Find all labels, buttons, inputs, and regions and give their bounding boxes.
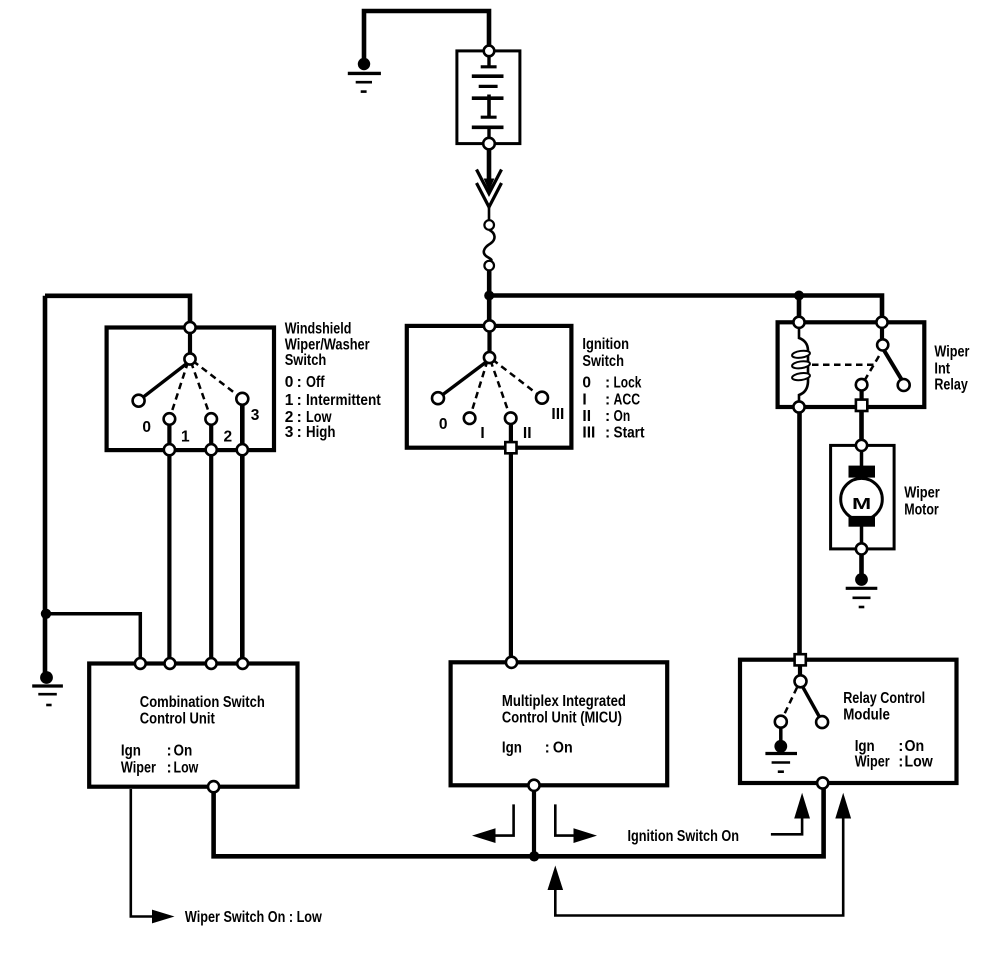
wiper/washer switch box xyxy=(107,328,274,451)
terminal bottom 3 xyxy=(237,444,248,455)
svg-text:Combination Switch: Combination Switch xyxy=(140,694,265,711)
svg-text:Control Unit (MICU): Control Unit (MICU) xyxy=(502,710,622,727)
wire ignition pivot stem xyxy=(487,326,491,358)
svg-text:Windshield: Windshield xyxy=(285,321,352,338)
wire module pivot stem xyxy=(798,660,802,682)
terminal bottom 2 xyxy=(206,444,217,455)
fusible link squiggle xyxy=(484,230,495,261)
svg-text::: : xyxy=(167,743,172,760)
svg-text:Low: Low xyxy=(174,759,200,776)
annotation signal into module left xyxy=(771,818,802,834)
relay coil loop 3 xyxy=(792,372,811,381)
svg-text:III: III xyxy=(582,424,595,441)
svg-text:High: High xyxy=(306,424,336,441)
svg-text::: : xyxy=(605,408,610,425)
battery terminal top xyxy=(484,46,495,57)
svg-text::: : xyxy=(605,391,610,408)
contact 0 xyxy=(133,395,145,407)
arrowhead feedback xyxy=(548,866,564,891)
svg-text::: : xyxy=(297,424,302,441)
contact 0 (Lock) xyxy=(432,392,444,404)
wire switch 1 to combination unit xyxy=(167,455,171,664)
svg-text::: : xyxy=(605,424,610,441)
wire wiper switch feed xyxy=(45,296,190,328)
terminal wiper switch top xyxy=(184,322,195,333)
contact 1 xyxy=(164,413,176,425)
svg-text:0: 0 xyxy=(285,374,294,391)
svg-text:3: 3 xyxy=(285,424,294,441)
svg-text:3: 3 xyxy=(251,407,260,424)
svg-text:On: On xyxy=(614,408,631,425)
annotation feedback line xyxy=(555,818,843,916)
switch arm to position 0 xyxy=(139,361,190,401)
svg-text:III: III xyxy=(551,406,564,423)
svg-text:1: 1 xyxy=(285,392,294,409)
relay NC contact xyxy=(856,379,868,391)
label MICU state xyxy=(502,740,573,757)
terminal comb 2 xyxy=(165,658,176,669)
in-line connector double chevron xyxy=(477,170,502,208)
svg-text::: : xyxy=(167,759,172,776)
dashed arm to position II xyxy=(491,361,511,419)
wire NC contact to terminal xyxy=(859,388,863,405)
svg-text:II: II xyxy=(582,408,591,425)
svg-text:1: 1 xyxy=(181,429,190,446)
annotation signal out of MICU left xyxy=(494,804,514,835)
contact 2 xyxy=(205,413,217,425)
svg-text:Wiper Switch On : Low: Wiper Switch On : Low xyxy=(185,909,323,926)
module switch arm xyxy=(803,687,820,718)
relay switch pivot xyxy=(877,339,888,350)
label wiper switch legend xyxy=(285,374,381,441)
relay switch arm xyxy=(884,350,903,382)
wire motor to ground xyxy=(859,554,864,576)
arrowhead wiper switch signal xyxy=(152,910,175,924)
svg-text:0: 0 xyxy=(439,416,448,433)
svg-text:II: II xyxy=(523,425,532,442)
terminal module top xyxy=(795,654,806,665)
arrowhead module right xyxy=(835,793,851,819)
ground G2 xyxy=(32,671,63,705)
relay coil backbone xyxy=(799,327,808,402)
terminal ignition top xyxy=(484,320,495,331)
fuse terminal upper xyxy=(484,220,494,230)
svg-text:Motor: Motor xyxy=(904,502,939,519)
terminal relay NC bottom xyxy=(856,400,867,411)
svg-text:Switch: Switch xyxy=(285,352,327,369)
svg-text:Intermittent: Intermittent xyxy=(306,392,381,409)
svg-text:Wiper: Wiper xyxy=(121,759,156,776)
wire MICU drop to bus xyxy=(532,791,536,857)
label combination unit title xyxy=(140,694,265,728)
label ignition switch title xyxy=(582,336,629,370)
terminal motor top xyxy=(856,440,867,451)
motor brush top xyxy=(849,466,876,478)
terminal ignition bottom xyxy=(505,442,516,453)
relay coil loop 1 xyxy=(792,350,811,359)
wire motor top lead xyxy=(860,449,864,467)
svg-text:Ign: Ign xyxy=(502,740,522,757)
svg-text:Ign: Ign xyxy=(121,743,141,760)
wire motor bottom lead xyxy=(860,526,864,545)
multiplex integrated control unit box xyxy=(451,662,668,785)
annotation signal out of MICU right xyxy=(555,804,575,835)
terminal comb 4 xyxy=(237,658,248,669)
wire position 2 down xyxy=(209,419,213,450)
terminal MICU top xyxy=(506,657,517,668)
terminal comb 3 xyxy=(206,658,217,669)
svg-text:0: 0 xyxy=(142,419,151,436)
svg-text::: : xyxy=(297,392,302,409)
battery terminal bottom xyxy=(483,138,495,150)
terminal motor bottom xyxy=(856,543,867,554)
internal ground G4 xyxy=(765,740,797,772)
svg-text:2: 2 xyxy=(224,429,233,446)
dashed arm to position III xyxy=(493,360,543,398)
svg-text:Wiper: Wiper xyxy=(855,754,890,771)
svg-text::: : xyxy=(297,374,302,391)
wire ground G1 to battery positive xyxy=(364,11,489,64)
junction bottom bus xyxy=(529,851,539,861)
svg-text:Wiper/Washer: Wiper/Washer xyxy=(285,336,370,353)
svg-text:M: M xyxy=(852,496,871,513)
motor circle M xyxy=(841,478,883,520)
label ignition legend xyxy=(582,375,644,442)
wire position 1 down xyxy=(167,419,171,450)
terminal relay coil top xyxy=(793,317,804,328)
svg-text:0: 0 xyxy=(582,375,591,392)
annotation wiper switch signal line xyxy=(131,789,153,917)
module pivot contact xyxy=(795,675,807,687)
dashed arm to NC ground contact xyxy=(784,688,798,717)
wire position II to MICU xyxy=(509,418,513,662)
terminal module bottom xyxy=(817,777,828,788)
svg-text:Relay: Relay xyxy=(934,377,968,394)
wire switch 2 to combination unit xyxy=(209,455,213,664)
wire NC contact to internal ground xyxy=(779,727,783,742)
svg-text::: : xyxy=(605,375,610,392)
module moving contact xyxy=(816,716,828,728)
svg-text:Wiper: Wiper xyxy=(904,485,940,502)
svg-text:Off: Off xyxy=(306,374,325,391)
wire bottom bus combination to relay module xyxy=(214,788,824,856)
motor brush bottom xyxy=(849,516,876,527)
dashed arm to position 2 xyxy=(191,362,211,419)
ground G3 xyxy=(846,573,878,607)
arrowhead MICU right xyxy=(574,828,598,843)
relay control module box xyxy=(740,660,957,783)
junction battery bus xyxy=(484,291,494,301)
contact 3 xyxy=(236,393,248,405)
svg-text:Int: Int xyxy=(934,361,950,378)
terminal relay coil bottom xyxy=(793,401,804,412)
contact pivot xyxy=(184,353,195,364)
terminal comb bottom xyxy=(208,781,219,792)
contact I (ACC) xyxy=(464,412,476,424)
contact III (Start) xyxy=(536,392,548,404)
dashed actuation link xyxy=(812,364,877,367)
connector arrow tip xyxy=(484,179,495,192)
battery plates xyxy=(472,56,504,139)
fuse terminal lower xyxy=(484,261,494,271)
svg-text:On: On xyxy=(553,740,573,757)
svg-text::: : xyxy=(545,740,550,757)
ignition arm to position 0 xyxy=(438,360,490,399)
wire chevron to fuse xyxy=(488,206,491,221)
module NC contact xyxy=(775,716,787,728)
wire switch 3 to combination unit xyxy=(240,455,245,664)
svg-text:I: I xyxy=(480,425,484,442)
wire relay coil to relay control module xyxy=(797,413,802,660)
terminal relay switch top xyxy=(876,317,887,328)
label wiper int relay xyxy=(934,344,969,394)
svg-text:I: I xyxy=(582,391,586,408)
svg-text:Low: Low xyxy=(905,754,934,771)
dashed arm to position I xyxy=(470,361,488,419)
relay moving contact xyxy=(898,379,910,391)
svg-text:ACC: ACC xyxy=(614,391,641,408)
svg-text:Module: Module xyxy=(843,706,890,723)
junction relay coil branch xyxy=(794,291,804,301)
battery box xyxy=(457,51,520,144)
wire fuse to ignition switch xyxy=(487,270,492,326)
svg-text:Ignition Switch On: Ignition Switch On xyxy=(628,828,740,845)
label combination unit state xyxy=(121,743,199,777)
wire battery negative down xyxy=(487,149,492,186)
svg-text:On: On xyxy=(174,743,193,760)
svg-text:Switch: Switch xyxy=(582,353,624,370)
arrowhead MICU left xyxy=(472,828,496,843)
ignition switch box xyxy=(407,326,572,448)
relay coil loop 2 xyxy=(792,360,811,369)
svg-text:Lock: Lock xyxy=(614,375,642,392)
wire relay NC to wiper motor xyxy=(859,411,864,446)
wire ground node to combination unit xyxy=(46,614,141,664)
wire position 3 down xyxy=(240,399,245,450)
wiper motor box xyxy=(831,445,895,549)
dashed arm to position 3 xyxy=(193,361,242,399)
label MICU title xyxy=(502,693,626,727)
annotation feedback up arrow xyxy=(554,889,557,916)
contact II (On) xyxy=(505,412,517,424)
wire bus to relay coil xyxy=(797,296,802,323)
ignition contact pivot xyxy=(484,352,495,363)
wire relay switch stem xyxy=(880,322,884,345)
svg-text:Relay Control: Relay Control xyxy=(843,690,925,707)
terminal MICU bottom xyxy=(528,780,539,791)
label relay control module state xyxy=(855,738,934,770)
junction left ground node xyxy=(41,609,51,619)
arrowhead module left xyxy=(794,793,810,819)
terminal comb 1 xyxy=(135,658,146,669)
svg-text::: : xyxy=(898,754,903,771)
svg-text:Ignition: Ignition xyxy=(582,336,629,353)
dashed arm to position 1 xyxy=(169,362,188,419)
ground G1 xyxy=(348,58,381,92)
wire pivot stem xyxy=(188,328,192,360)
wiper int relay box xyxy=(778,322,925,407)
dashed link to NC contact xyxy=(865,356,880,381)
power bus to wiper int relay xyxy=(489,296,882,323)
label wiper motor xyxy=(904,485,940,519)
wire left drop to ground xyxy=(43,296,48,672)
terminal bottom 1 xyxy=(164,444,175,455)
combination switch control unit box xyxy=(89,664,297,787)
label relay control module title xyxy=(843,690,925,723)
svg-text:Multiplex Integrated: Multiplex Integrated xyxy=(502,693,626,710)
svg-text:Control Unit: Control Unit xyxy=(140,711,215,728)
label wiper switch title xyxy=(285,321,370,369)
svg-text:Wiper: Wiper xyxy=(934,344,969,361)
svg-text:Start: Start xyxy=(614,424,645,441)
